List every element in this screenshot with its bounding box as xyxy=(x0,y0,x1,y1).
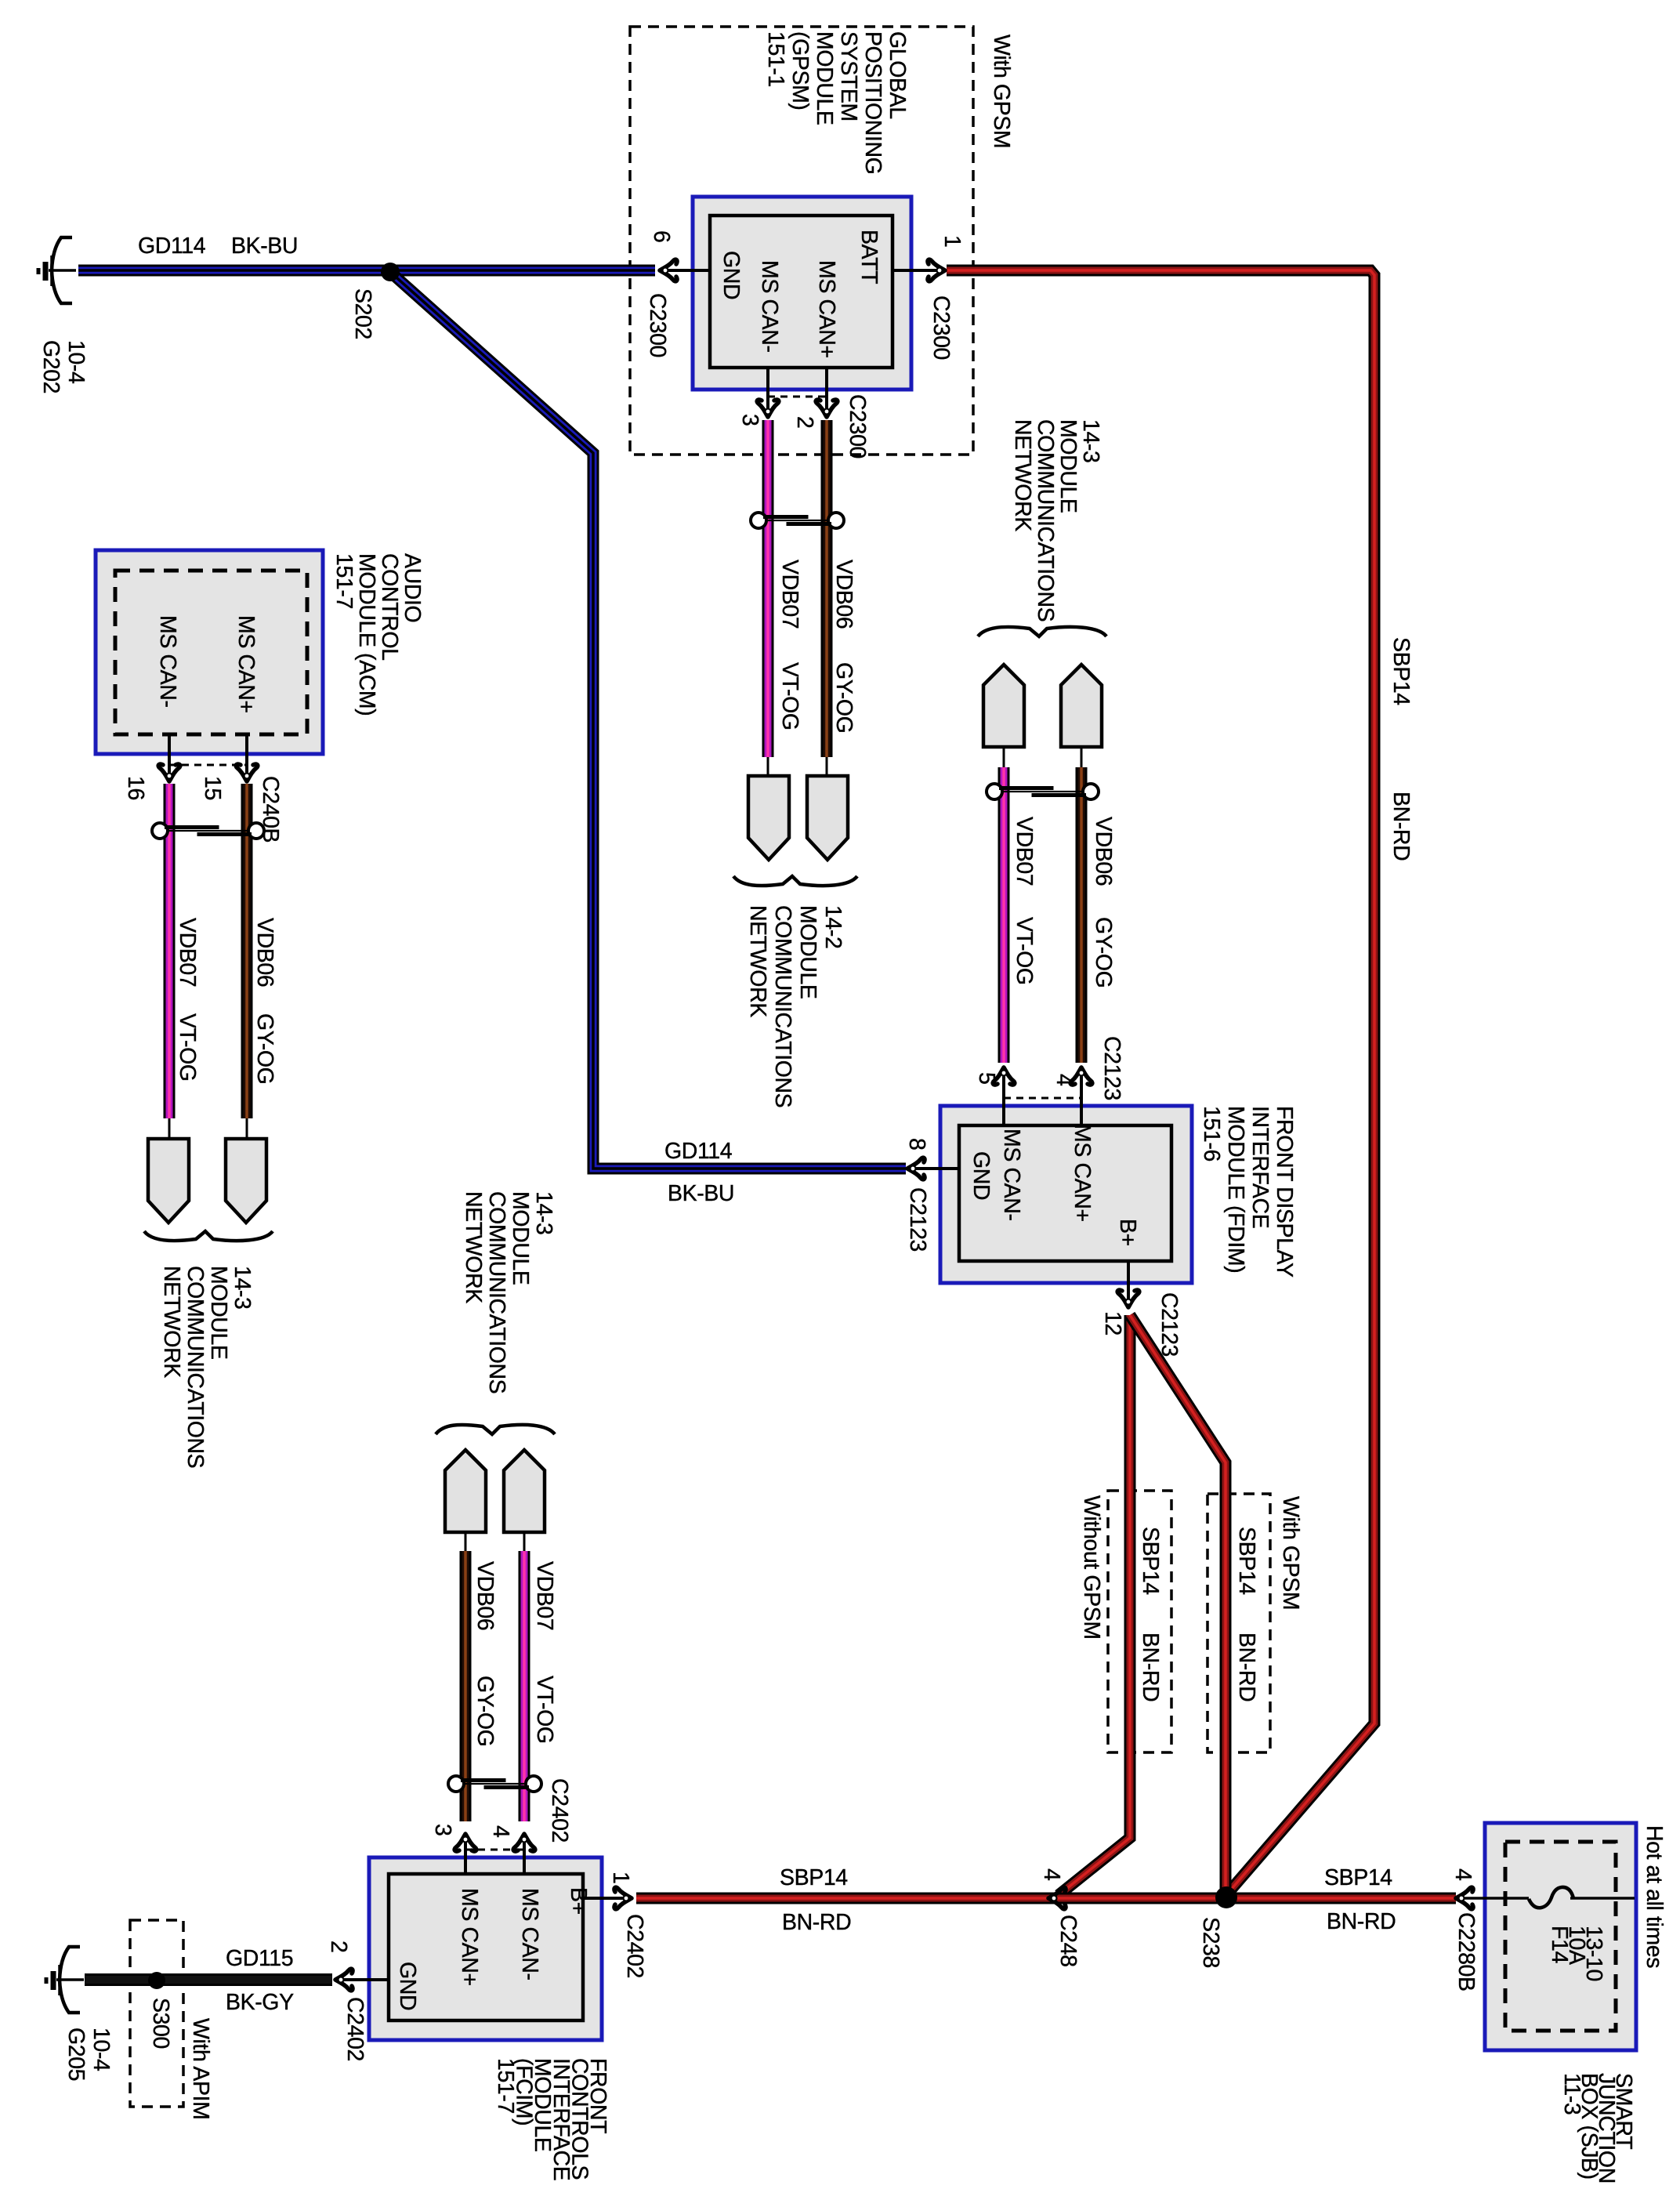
svg-text:C240B: C240B xyxy=(258,776,283,843)
svg-text:151-7: 151-7 xyxy=(331,553,357,609)
svg-text:12: 12 xyxy=(1100,1311,1125,1335)
svg-text:VDB06: VDB06 xyxy=(1091,817,1116,886)
svg-text:15: 15 xyxy=(200,776,225,800)
svg-text:151-1: 151-1 xyxy=(763,31,788,87)
svg-text:14-3: 14-3 xyxy=(531,1191,556,1234)
svg-text:BK-BU: BK-BU xyxy=(668,1181,734,1206)
svg-text:MODULE: MODULE xyxy=(812,31,837,125)
svg-text:10-4: 10-4 xyxy=(63,340,89,384)
svg-text:COMMUNICATIONS: COMMUNICATIONS xyxy=(183,1266,208,1468)
svg-text:4: 4 xyxy=(1039,1868,1064,1881)
svg-text:C2123: C2123 xyxy=(1099,1036,1124,1100)
svg-text:S202: S202 xyxy=(350,288,375,339)
svg-text:GD115: GD115 xyxy=(226,1946,293,1971)
svg-text:NETWORK: NETWORK xyxy=(745,905,770,1017)
svg-text:C2123: C2123 xyxy=(1157,1292,1182,1357)
svg-text:MODULE (ACM): MODULE (ACM) xyxy=(354,553,379,716)
svg-text:GLOBAL: GLOBAL xyxy=(885,31,910,119)
svg-text:MS CAN-: MS CAN- xyxy=(757,260,782,353)
svg-text:10-4: 10-4 xyxy=(89,2028,114,2071)
svg-text:2: 2 xyxy=(792,416,817,428)
svg-text:C2300: C2300 xyxy=(845,394,870,458)
svg-text:5: 5 xyxy=(974,1072,999,1084)
svg-text:MS CAN-: MS CAN- xyxy=(999,1129,1024,1221)
svg-text:BN-RD: BN-RD xyxy=(782,1910,851,1935)
svg-text:GND: GND xyxy=(969,1151,994,1200)
svg-text:11-3: 11-3 xyxy=(1559,2073,1584,2115)
svg-text:GND: GND xyxy=(719,251,744,299)
svg-text:BK-BU: BK-BU xyxy=(231,234,298,259)
svg-text:VT-OG: VT-OG xyxy=(532,1676,557,1744)
svg-text:VDB06: VDB06 xyxy=(831,560,856,629)
svg-text:3: 3 xyxy=(430,1824,455,1836)
svg-text:151-7: 151-7 xyxy=(493,2058,518,2114)
svg-text:B+: B+ xyxy=(1115,1219,1140,1246)
svg-text:13-10: 13-10 xyxy=(1581,1926,1606,1981)
svg-text:AUDIO: AUDIO xyxy=(400,553,425,622)
svg-text:MODULE: MODULE xyxy=(206,1266,231,1360)
svg-text:SBP14: SBP14 xyxy=(1234,1527,1259,1595)
svg-text:MS CAN+: MS CAN+ xyxy=(1070,1124,1095,1222)
svg-text:VDB07: VDB07 xyxy=(777,560,802,629)
svg-text:G205: G205 xyxy=(63,2028,89,2081)
svg-text:VT-OG: VT-OG xyxy=(175,1013,200,1082)
svg-text:6: 6 xyxy=(649,230,674,242)
svg-text:BK-GY: BK-GY xyxy=(226,1990,294,2015)
svg-text:1: 1 xyxy=(608,1872,633,1883)
svg-text:C248: C248 xyxy=(1055,1915,1081,1967)
svg-text:POSITIONING: POSITIONING xyxy=(860,31,885,174)
svg-text:14-3: 14-3 xyxy=(1078,419,1103,462)
svg-text:MS CAN-: MS CAN- xyxy=(517,1888,542,1981)
svg-text:151-6: 151-6 xyxy=(1199,1106,1224,1161)
svg-text:C2300: C2300 xyxy=(929,295,954,360)
svg-text:VDB07: VDB07 xyxy=(1012,817,1037,886)
svg-text:BATT: BATT xyxy=(856,230,882,284)
svg-text:C2402: C2402 xyxy=(547,1778,572,1843)
svg-text:With GPSM: With GPSM xyxy=(1278,1496,1303,1610)
svg-text:GND: GND xyxy=(395,1962,420,2010)
svg-text:GY-OG: GY-OG xyxy=(472,1676,498,1746)
svg-text:1: 1 xyxy=(940,235,965,247)
svg-text:COMMUNICATIONS: COMMUNICATIONS xyxy=(1033,419,1058,622)
svg-text:MS CAN+: MS CAN+ xyxy=(234,615,259,713)
svg-text:4: 4 xyxy=(1450,1868,1475,1881)
svg-text:COMMUNICATIONS: COMMUNICATIONS xyxy=(484,1191,509,1393)
svg-text:BN-RD: BN-RD xyxy=(1389,792,1414,861)
svg-text:SYSTEM: SYSTEM xyxy=(836,31,861,121)
svg-text:4: 4 xyxy=(488,1825,513,1838)
svg-text:VT-OG: VT-OG xyxy=(777,662,802,730)
svg-text:COMMUNICATIONS: COMMUNICATIONS xyxy=(770,905,795,1107)
svg-text:INTERFACE: INTERFACE xyxy=(1247,1106,1273,1228)
svg-text:MS CAN-: MS CAN- xyxy=(155,615,180,708)
svg-text:VDB07: VDB07 xyxy=(532,1561,557,1630)
svg-text:S238: S238 xyxy=(1198,1917,1223,1968)
svg-text:8: 8 xyxy=(904,1138,929,1150)
svg-text:14-2: 14-2 xyxy=(820,905,845,948)
svg-text:With APIM: With APIM xyxy=(188,2018,213,2119)
svg-text:4: 4 xyxy=(1052,1074,1077,1086)
svg-text:GY-OG: GY-OG xyxy=(1091,917,1116,988)
svg-text:MS CAN+: MS CAN+ xyxy=(457,1888,482,1986)
svg-text:MODULE (FDIM): MODULE (FDIM) xyxy=(1223,1106,1248,1273)
svg-text:BN-RD: BN-RD xyxy=(1234,1633,1259,1701)
svg-text:SBP14: SBP14 xyxy=(1138,1527,1163,1595)
svg-text:MS CAN+: MS CAN+ xyxy=(814,260,839,358)
svg-text:MODULE: MODULE xyxy=(508,1191,533,1285)
svg-text:CONTROL: CONTROL xyxy=(377,553,402,661)
svg-text:VDB06: VDB06 xyxy=(472,1561,498,1630)
svg-text:SBP14: SBP14 xyxy=(780,1865,848,1890)
svg-text:With GPSM: With GPSM xyxy=(989,34,1014,148)
svg-text:2: 2 xyxy=(326,1941,351,1952)
svg-text:Hot at all times: Hot at all times xyxy=(1642,1825,1667,1968)
svg-text:GD114: GD114 xyxy=(138,234,206,259)
svg-text:MODULE: MODULE xyxy=(1055,419,1081,513)
svg-text:NETWORK: NETWORK xyxy=(1010,419,1035,531)
svg-text:16: 16 xyxy=(123,776,148,800)
svg-text:C2402: C2402 xyxy=(342,1997,367,2061)
svg-text:C2123: C2123 xyxy=(905,1187,930,1252)
svg-text:(GPSM): (GPSM) xyxy=(787,31,813,111)
svg-text:G202: G202 xyxy=(38,340,63,393)
svg-text:GY-OG: GY-OG xyxy=(831,662,856,733)
svg-text:MODULE: MODULE xyxy=(795,905,820,999)
svg-text:C2402: C2402 xyxy=(622,1914,647,1978)
svg-text:GY-OG: GY-OG xyxy=(252,1013,277,1084)
svg-text:3: 3 xyxy=(737,414,762,426)
svg-text:SBP14: SBP14 xyxy=(1389,637,1414,705)
svg-text:Without GPSM: Without GPSM xyxy=(1079,1495,1104,1640)
svg-text:C2300: C2300 xyxy=(645,293,670,357)
svg-text:14-3: 14-3 xyxy=(230,1266,255,1309)
svg-text:NETWORK: NETWORK xyxy=(159,1266,184,1378)
svg-text:B+: B+ xyxy=(566,1887,591,1915)
svg-text:C2280B: C2280B xyxy=(1454,1912,1479,1991)
svg-text:BN-RD: BN-RD xyxy=(1138,1633,1163,1701)
svg-text:VT-OG: VT-OG xyxy=(1012,917,1037,985)
svg-text:VDB06: VDB06 xyxy=(252,918,277,987)
svg-text:FRONT DISPLAY: FRONT DISPLAY xyxy=(1272,1106,1297,1277)
svg-text:GD114: GD114 xyxy=(664,1139,733,1164)
svg-text:SBP14: SBP14 xyxy=(1324,1865,1392,1890)
svg-text:NETWORK: NETWORK xyxy=(461,1191,486,1303)
svg-text:BN-RD: BN-RD xyxy=(1327,1909,1396,1934)
svg-text:VDB07: VDB07 xyxy=(175,918,200,987)
svg-text:S300: S300 xyxy=(148,1998,173,2049)
